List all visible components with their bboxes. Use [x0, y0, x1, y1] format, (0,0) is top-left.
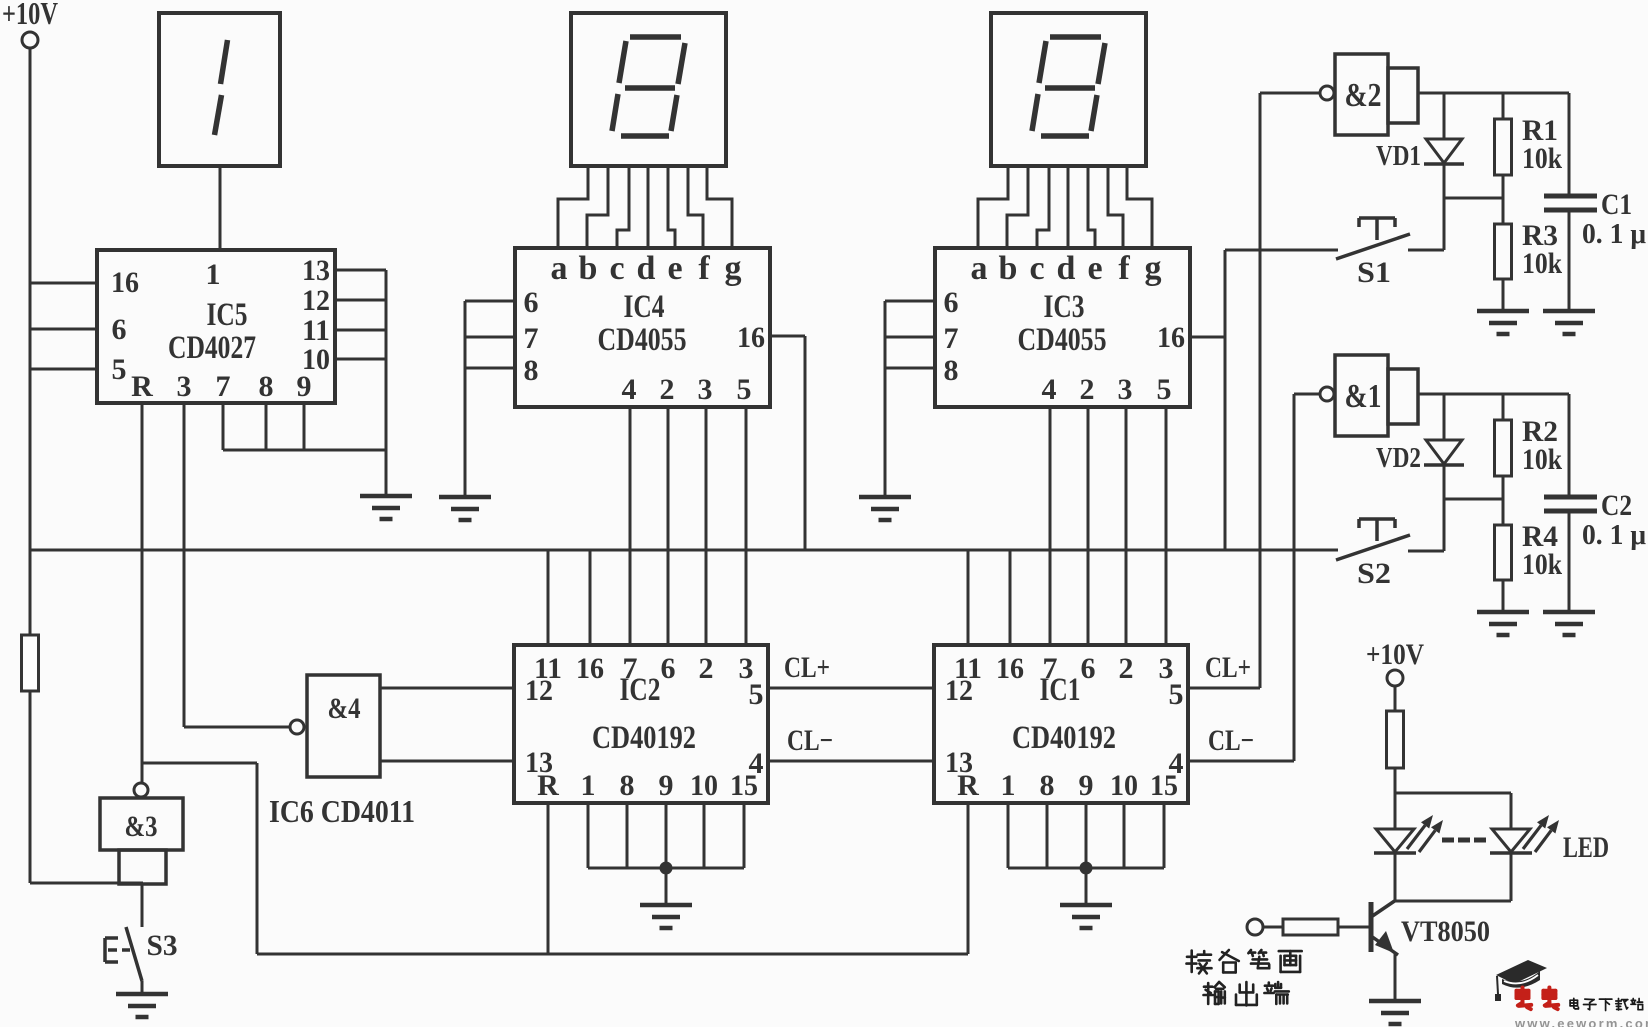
wire IC2 pin R down [547, 803, 550, 954]
svg-text:7: 7 [524, 322, 539, 355]
svg-text:10k: 10k [1522, 443, 1562, 476]
wire IC4 pin 2 to IC2 pin 6 [667, 407, 670, 645]
svg-text:VD2: VD2 [1376, 443, 1421, 474]
svg-text:3: 3 [1118, 373, 1133, 406]
svg-text:R: R [537, 769, 559, 802]
wires display3 to IC3 a-g inputs [978, 166, 1152, 250]
wire IC5 pin 5 to +10V rail [30, 368, 97, 371]
svg-text:S2: S2 [1357, 557, 1391, 590]
svg-text:10k: 10k [1522, 247, 1562, 280]
wire reset branch to IC2/IC1 R pins [142, 763, 968, 954]
svg-text:2: 2 [1080, 373, 1095, 406]
svg-text:e: e [1087, 250, 1102, 287]
wire IC1 pin 16 to +10V bus [1009, 550, 1012, 645]
resistor R4 [1495, 520, 1563, 612]
svg-text:f: f [1118, 250, 1130, 287]
svg-text:C2: C2 [1601, 489, 1632, 522]
svg-text:d: d [1057, 250, 1076, 287]
wire IC3 pin 2 to IC1 pin 6 [1087, 407, 1090, 645]
svg-text:16: 16 [111, 266, 139, 299]
wire IC4 pin 4 to IC2 pin 7 [629, 407, 632, 645]
svg-text:16: 16 [1157, 321, 1185, 354]
wire LED1 anode [1394, 793, 1397, 830]
wire &2 output node [1418, 92, 1569, 95]
wire IC5 pin 12 to ground riser [335, 299, 386, 302]
svg-text:c: c [1029, 250, 1044, 287]
label CL- (IC2 output) [787, 724, 833, 757]
wire +10V rail lower segment to gate &3 output node [30, 691, 143, 883]
svg-text:6: 6 [944, 286, 959, 319]
wire LED top rail [1395, 792, 1511, 795]
wire +10V rail upper segment [29, 48, 32, 635]
svg-text:1: 1 [206, 258, 221, 291]
svg-text:f: f [698, 250, 710, 287]
transistor Q1 VT8050 [1371, 900, 1490, 955]
svg-text:1: 1 [581, 769, 596, 802]
wire R2 to R4 [1502, 476, 1505, 525]
node junction (IC2 pin 9 ground) [661, 863, 672, 906]
svg-text:10: 10 [690, 769, 718, 802]
switch S1 (pushbutton) [1225, 218, 1444, 289]
resistor (base, unlabeled) [1283, 919, 1338, 935]
wire &1 output node [1418, 393, 1569, 396]
svg-text:S3: S3 [147, 929, 178, 962]
wire IC5 pin 10 to ground riser [335, 358, 386, 361]
wires IC1 bottom pins 1,8,9,10,15 tie [1008, 803, 1164, 868]
wire base resistor to base [1338, 926, 1369, 929]
wire IC4 pin 16 to +10V bus [770, 336, 805, 550]
wire IC5 pin 9 down [303, 403, 306, 450]
svg-text:C1: C1 [1601, 188, 1632, 221]
wire IC5 pins 7-8-9 bus to ground riser [223, 449, 386, 452]
svg-text:CL−: CL− [787, 724, 833, 757]
logic gate &1 (IC6 NAND) [1320, 355, 1418, 436]
wire R1 to R3 [1502, 175, 1505, 224]
svg-text:8: 8 [944, 354, 959, 387]
wire resistor to LED rail [1394, 768, 1397, 793]
wire IC2 pin 16 to +10V bus [589, 550, 592, 645]
svg-text:CL+: CL+ [784, 651, 830, 684]
svg-text:8: 8 [1040, 769, 1055, 802]
svg-text:CD40192: CD40192 [1012, 720, 1116, 756]
wire IC3 ground riser [884, 301, 887, 497]
label IC6 CD4011 [269, 793, 415, 829]
resistor R1 [1495, 93, 1563, 175]
wire IC4 pin 3 to IC2 pin 2 [705, 407, 708, 645]
svg-text:a: a [551, 250, 568, 287]
ground (R3) [1477, 311, 1529, 334]
svg-text:g: g [1145, 250, 1162, 287]
7-segment display (digit 8, over IC3) [991, 13, 1146, 166]
svg-text:5: 5 [112, 353, 127, 386]
switch S3 (pushbutton) [105, 927, 178, 994]
svg-text:VT8050: VT8050 [1401, 915, 1490, 948]
svg-text:16: 16 [996, 652, 1024, 685]
op-amp U5 -- IC1 CD40192 counter [934, 645, 1188, 803]
resistor (left rail, unlabeled) [22, 635, 39, 691]
wire CL- IC1 pin4 to riser [1188, 760, 1294, 763]
wire VD2 to R2/R4 node [1444, 498, 1503, 501]
svg-text:e: e [667, 250, 682, 287]
wire emitter to ground [1394, 953, 1397, 1001]
svg-text:&1: &1 [1345, 378, 1382, 415]
svg-text:6: 6 [1081, 652, 1096, 685]
svg-text:7: 7 [944, 322, 959, 355]
svg-text:12: 12 [302, 284, 330, 317]
wire &4 output to IC2 pin 13 [380, 760, 514, 763]
ground (R4) [1477, 612, 1529, 635]
svg-text:12: 12 [525, 674, 553, 707]
svg-text:&4: &4 [328, 692, 361, 725]
svg-text:b: b [579, 250, 598, 287]
svg-text:www.eeworm.com: www.eeworm.com [1514, 1016, 1648, 1027]
svg-text:LED: LED [1563, 831, 1609, 864]
svg-text:16: 16 [576, 652, 604, 685]
wire CL+ IC2 pin5 to IC1 pin12 [768, 687, 934, 690]
svg-text:15: 15 [730, 769, 758, 802]
wire IC3 pins 6-7-8 tie [885, 301, 935, 368]
svg-text:6: 6 [112, 313, 127, 346]
power terminal +10V (LED driver) [1366, 638, 1424, 686]
wires display2 to IC4 a-g inputs [558, 166, 732, 250]
svg-text:c: c [609, 250, 624, 287]
wire VD1 to R1/R3 node [1444, 197, 1503, 200]
svg-text:12: 12 [945, 674, 973, 707]
wire IC5 pin 13 to ground riser [335, 269, 386, 272]
svg-text:IC3: IC3 [1044, 289, 1085, 325]
wire IC4 ground riser [464, 301, 467, 497]
wire &3 output down [141, 884, 144, 927]
capacitor C1 [1544, 93, 1646, 311]
wire IC3 pin 5 to IC1 pin 3 [1165, 407, 1168, 645]
svg-text:3: 3 [698, 373, 713, 406]
op-amp U4 -- IC2 CD40192 counter [514, 645, 768, 803]
wire dashed (more LEDs) [1442, 838, 1486, 843]
svg-text:2: 2 [699, 652, 714, 685]
ground (C1) [1543, 311, 1595, 334]
svg-text:7: 7 [1043, 652, 1058, 685]
wire input terminal to base resistor [1263, 926, 1283, 929]
diode VD2 [1376, 394, 1464, 499]
logic gate &2 (IC6 NAND) [1320, 54, 1418, 135]
wire &2 input from CL+ riser [1260, 92, 1320, 95]
svg-text:R: R [957, 769, 979, 802]
svg-text:8: 8 [259, 370, 274, 403]
svg-text:d: d [637, 250, 656, 287]
svg-text:CL−: CL− [1208, 724, 1254, 757]
wire IC5 pin 6 to +10V rail [30, 328, 97, 331]
ground (IC3) [859, 497, 911, 520]
svg-text:2: 2 [660, 373, 675, 406]
svg-text:2: 2 [1119, 652, 1134, 685]
label CL- (IC1 output) [1208, 724, 1254, 757]
ground (C2) [1543, 612, 1595, 635]
node CL- riser (IC1 pin4 to &1) [1293, 394, 1296, 761]
wire IC3 pin 4 to IC1 pin 7 [1049, 407, 1052, 645]
svg-text:CL+: CL+ [1205, 651, 1251, 684]
svg-text:7: 7 [216, 370, 231, 403]
svg-text:0. 1 μ: 0. 1 μ [1582, 520, 1646, 551]
svg-text:8: 8 [620, 769, 635, 802]
svg-text:a: a [971, 250, 988, 287]
wire display1 to IC5 pin 1 [219, 166, 222, 250]
wire main +10V bus (node VDD) [30, 549, 1338, 552]
label LED [1563, 831, 1609, 864]
wire VD1 node down to S1 [1443, 198, 1446, 250]
svg-text:+10V: +10V [2, 0, 58, 31]
svg-text:CD4055: CD4055 [1018, 322, 1107, 358]
resistor (LED supply, unlabeled) [1387, 711, 1404, 768]
svg-text:CD40192: CD40192 [592, 720, 696, 756]
wire IC5 pin 8 down [265, 403, 268, 450]
wire IC2 pin 11 to +10V bus [547, 550, 550, 645]
LED LED2 [1490, 793, 1559, 901]
svg-text:g: g [725, 250, 742, 287]
svg-text:+10V: +10V [1366, 638, 1424, 671]
svg-text:7: 7 [623, 652, 638, 685]
ground (IC1) [1060, 905, 1112, 928]
wire IC4 pins 6-7-8 tie [465, 301, 515, 368]
svg-text:9: 9 [659, 769, 674, 802]
svg-text:9: 9 [1079, 769, 1094, 802]
watermark eeworm logo [1495, 960, 1648, 1027]
svg-text:10k: 10k [1522, 548, 1562, 581]
op-amp U2 -- IC4 CD4055 decoder [515, 248, 770, 407]
svg-text:0. 1 μ: 0. 1 μ [1582, 219, 1646, 250]
svg-text:IC6 CD4011: IC6 CD4011 [269, 793, 415, 829]
wire CL+ IC1 pin5 to riser [1188, 687, 1260, 690]
wire +10V to resistor [1394, 686, 1397, 711]
svg-text:CD4055: CD4055 [598, 322, 687, 358]
wire LED1 cathode to collector [1394, 854, 1397, 901]
wire S1 riser to +10V bus [1224, 250, 1227, 550]
svg-text:4: 4 [1042, 373, 1057, 406]
power terminal +10V (top left) [2, 0, 58, 48]
svg-text:5: 5 [737, 373, 752, 406]
wire IC3 pin 3 to IC1 pin 2 [1125, 407, 1128, 645]
node CL+ riser (IC1 pin5 to &2) [1259, 93, 1262, 688]
svg-text:5: 5 [749, 678, 764, 711]
svg-text:9: 9 [297, 370, 312, 403]
svg-text:IC4: IC4 [624, 289, 665, 325]
svg-text:&2: &2 [1345, 77, 1382, 114]
op-amp U1 -- IC5 CD4027 flip-flop [97, 250, 335, 403]
wire IC5 pin 11 to ground riser [335, 329, 386, 332]
svg-text:5: 5 [1157, 373, 1172, 406]
wire IC5 ground riser [385, 270, 388, 496]
ground (IC5) [360, 496, 412, 519]
svg-text:&3: &3 [125, 810, 158, 843]
wire IC5 pin R down to gate &3 input [141, 403, 144, 783]
svg-text:13: 13 [302, 254, 330, 287]
7-segment display (digit 8, over IC4) [571, 13, 726, 166]
diode VD1 [1376, 93, 1464, 198]
wire VD2 node down to S2 [1443, 499, 1446, 551]
svg-text:4: 4 [622, 373, 637, 406]
wire IC5 pin 3 down to gate &4 input [184, 403, 290, 727]
wire IC5 pin 7 down [222, 403, 225, 450]
svg-text:IC5: IC5 [207, 297, 248, 333]
wire IC1 pin 11 to +10V bus [967, 550, 970, 645]
wire IC1 pin R down [967, 803, 970, 954]
svg-text:b: b [999, 250, 1018, 287]
wire IC3 pin 16 to S1 riser [1192, 336, 1225, 339]
svg-text:8: 8 [524, 354, 539, 387]
7-segment display (digit 1) [159, 13, 280, 166]
label 接各笔画 (connect stroke outputs) [1187, 950, 1302, 973]
logic gate &3 (IC6 NAND) [100, 783, 183, 884]
svg-text:15: 15 [1150, 769, 1178, 802]
wire IC4 pin 5 to IC2 pin 3 [745, 407, 748, 645]
wire &4 output to IC2 pin 12 [380, 687, 514, 690]
terminal (stroke drive input) [1247, 919, 1263, 935]
node junction (IC1 pin 9 ground) [1081, 863, 1092, 906]
wires IC2 bottom pins 1,8,9,10,15 tie [588, 803, 744, 868]
svg-text:5: 5 [1169, 678, 1184, 711]
wire LED bottom rail [1395, 900, 1511, 903]
wire &1 input from CL- riser [1294, 393, 1320, 396]
LED LED1 [1374, 815, 1443, 853]
switch S2 (pushbutton) [1336, 519, 1444, 590]
capacitor C2 [1544, 394, 1646, 612]
wire CL- IC2 pin4 to IC1 pin13 [768, 760, 934, 763]
svg-text:CD4027: CD4027 [168, 330, 256, 366]
resistor R2 [1495, 394, 1563, 476]
svg-text:3: 3 [177, 370, 192, 403]
resistor R3 [1495, 219, 1563, 311]
ground (IC4) [439, 497, 491, 520]
svg-text:S1: S1 [1357, 256, 1391, 289]
svg-text:R: R [131, 370, 153, 403]
svg-text:16: 16 [737, 321, 765, 354]
wire IC5 pin 16 to +10V rail [30, 282, 97, 285]
svg-text:10: 10 [1110, 769, 1138, 802]
ground (VT8050) [1369, 1001, 1421, 1024]
svg-text:VD1: VD1 [1376, 141, 1421, 172]
ground (IC2) [640, 905, 692, 928]
label CL+ (IC1 output) [1205, 651, 1251, 684]
svg-text:1: 1 [1001, 769, 1016, 802]
logic gate &4 (IC6 NAND) [290, 675, 380, 777]
svg-text:6: 6 [524, 286, 539, 319]
label CL+ (IC2 output) [784, 651, 830, 684]
label 输出端 (output terminals) [1204, 982, 1289, 1005]
svg-text:10k: 10k [1522, 142, 1562, 175]
op-amp U3 -- IC3 CD4055 decoder [935, 248, 1190, 407]
svg-text:6: 6 [661, 652, 676, 685]
ground (S3) [116, 994, 168, 1017]
